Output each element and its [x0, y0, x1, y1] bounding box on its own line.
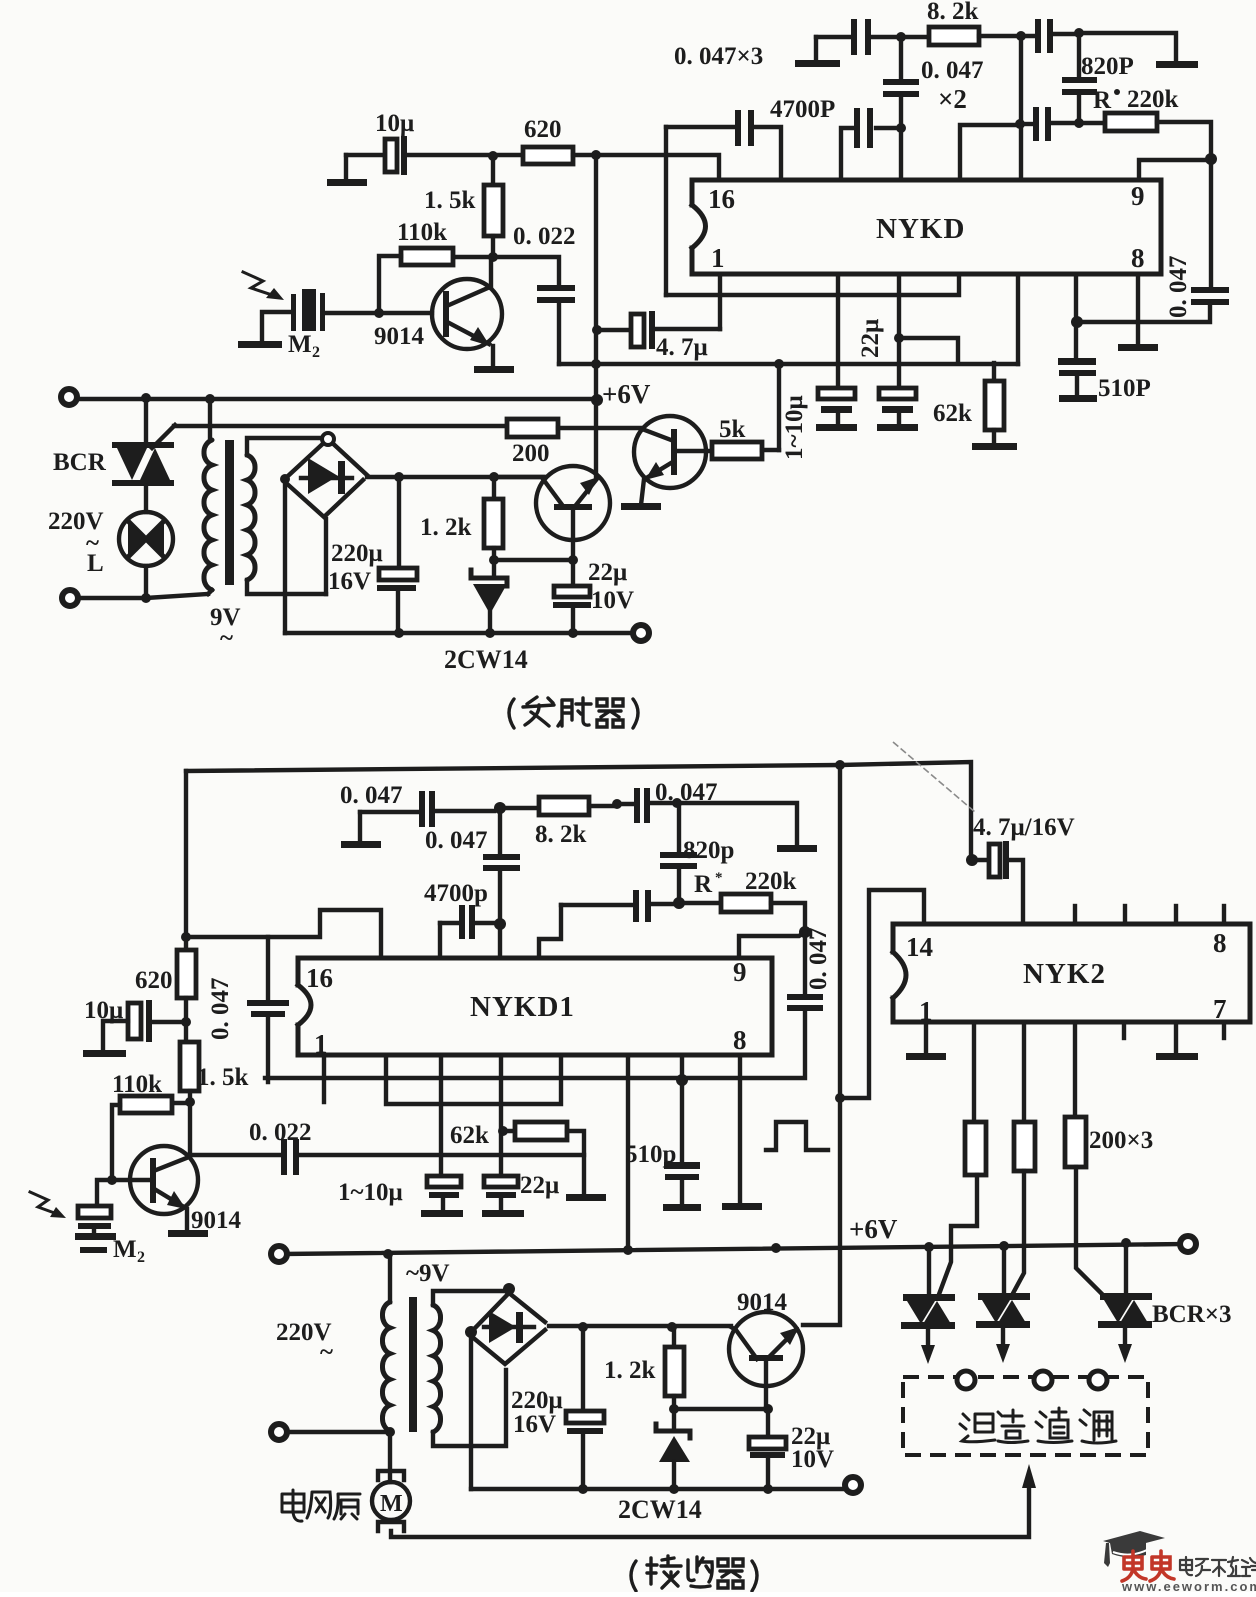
wire y125 with riser at 960 — [960, 125, 1018, 180]
label M2 — [288, 331, 320, 361]
svg-text:2CW14: 2CW14 — [444, 645, 528, 674]
svg-text:110k: 110k — [112, 1071, 162, 1098]
capacitor 1~10u (rx) — [421, 1176, 463, 1217]
zener 2CW14 — [471, 560, 507, 633]
svg-text:16V: 16V — [513, 1411, 556, 1438]
node — [488, 252, 498, 262]
label R* 220k — [1093, 86, 1179, 114]
terminal right — [1180, 1236, 1196, 1252]
svg-text:1~10μ: 1~10μ — [781, 395, 808, 460]
label fan chinese — [282, 1490, 360, 1521]
capacitor 220u/16V — [377, 477, 417, 633]
svg-text:10V: 10V — [591, 587, 634, 614]
label 0.047 x2 — [921, 57, 984, 114]
terminal rx2 — [271, 1424, 287, 1440]
IC U1 NYKD — [692, 180, 1161, 274]
svg-text:620: 620 — [524, 116, 562, 143]
wire pin to 1~10u — [836, 276, 840, 388]
svg-text:M: M — [380, 1491, 403, 1517]
node — [669, 1404, 679, 1414]
svg-text:220μ: 220μ — [331, 540, 383, 567]
node — [896, 32, 906, 42]
svg-text:1. 5k: 1. 5k — [424, 187, 476, 214]
label R* 220k — [694, 868, 797, 898]
label (receiver) chinese — [631, 1556, 757, 1591]
lamp L — [119, 512, 173, 566]
wire DC minus drop — [283, 482, 287, 633]
terminal TP2 — [62, 590, 78, 606]
wire collector column — [188, 1102, 192, 1155]
wire lamp to bottom — [144, 566, 148, 597]
pin stubs bottom — [1124, 1022, 1224, 1038]
capacitor 1~10u — [816, 388, 857, 431]
resistor 110k — [379, 248, 487, 313]
svg-text:4. 7μ/16V: 4. 7μ/16V — [973, 814, 1075, 841]
capacitor 0.022 (rx) — [190, 1139, 584, 1175]
node at 1020,124 — [1015, 119, 1025, 129]
vertical 1020 from node36 to IC — [1019, 41, 1023, 180]
node — [673, 897, 685, 909]
capacitor 0.022 — [493, 257, 575, 364]
resistor R* 220k — [1079, 113, 1211, 153]
triac BCR1 — [901, 1247, 955, 1364]
label 220V ~ — [276, 1319, 333, 1366]
wire — [346, 153, 383, 157]
terminal rx3 — [845, 1477, 861, 1493]
capacitor 22u (rx) — [482, 1176, 524, 1217]
wire motor bottom to box — [391, 1487, 1029, 1537]
svg-text:10μ: 10μ — [375, 110, 414, 137]
svg-text:220μ: 220μ — [511, 1387, 563, 1414]
node — [591, 150, 601, 160]
svg-text:16V: 16V — [328, 568, 371, 595]
capacitor 4700P — [666, 110, 781, 180]
wire to right ground — [1079, 33, 1176, 60]
transformer T1 secondary — [247, 438, 326, 594]
resistor 620 — [493, 147, 596, 164]
svg-text:0. 047: 0. 047 — [805, 928, 832, 991]
pin stubs top — [1075, 906, 1224, 924]
svg-text:820p: 820p — [683, 837, 734, 864]
svg-text:8: 8 — [733, 1025, 747, 1055]
svg-text:10μ: 10μ — [84, 997, 123, 1024]
svg-text:BCR×3: BCR×3 — [1152, 1301, 1232, 1328]
svg-text:510P: 510P — [1098, 375, 1151, 402]
wire pin to 1~10u — [439, 1057, 443, 1176]
node — [489, 472, 499, 482]
wire pin9 (rx) — [739, 932, 805, 958]
transistor Q5 9014 (rx) — [729, 1312, 803, 1409]
motor M — [372, 1432, 410, 1531]
IC U2 NYKD1 — [298, 958, 772, 1055]
watermark chongchong red chars — [1122, 1551, 1174, 1581]
capacitor 220u/16V (rx) — [566, 1327, 604, 1489]
svg-text:9014: 9014 — [374, 323, 425, 350]
wire DC minus (rx) — [469, 1336, 473, 1489]
label M2 — [113, 1236, 145, 1266]
node — [181, 1017, 191, 1027]
capacitor 0.047 (d) on y124 — [1020, 107, 1073, 141]
node — [205, 394, 215, 404]
gate wire 2 — [1011, 1171, 1024, 1297]
svg-text:1: 1 — [314, 1029, 328, 1059]
node — [488, 151, 498, 161]
node — [669, 1484, 679, 1494]
svg-text:M: M — [113, 1236, 137, 1263]
svg-text:9: 9 — [733, 957, 747, 987]
svg-text:*: * — [715, 870, 723, 886]
svg-text:L: L — [87, 550, 104, 577]
wire left column 666 — [664, 127, 668, 295]
transistor Q2 pass — [500, 404, 610, 556]
ground G4 rx top — [341, 812, 381, 848]
label 220u 16V — [511, 1387, 563, 1438]
capacitor 10u polarized — [385, 136, 489, 175]
wire — [287, 1430, 390, 1434]
label 22u 10V — [791, 1423, 834, 1473]
svg-text:10V: 10V — [791, 1446, 834, 1473]
gate wire 1 — [938, 1175, 977, 1297]
node — [485, 628, 495, 638]
node — [835, 760, 845, 770]
microphone M2 (rx) — [75, 1180, 116, 1253]
wire U loop — [386, 1057, 561, 1104]
node — [1121, 1238, 1131, 1248]
svg-text:62k: 62k — [450, 1122, 489, 1149]
pulse waveform symbol — [766, 1122, 828, 1150]
resistor 200 #1 — [965, 1022, 986, 1175]
svg-text:NYKD1: NYKD1 — [470, 991, 575, 1023]
wire +6V rail — [79, 397, 597, 401]
node — [141, 393, 151, 403]
resistor 200 #2 — [1014, 1022, 1035, 1171]
IC U3 NYK2 — [893, 924, 1250, 1022]
terminal ring 3 on box — [1089, 1371, 1107, 1389]
svg-text:0. 047×3: 0. 047×3 — [674, 43, 763, 70]
node 510p — [676, 1074, 688, 1086]
node — [394, 472, 404, 482]
svg-text:22μ: 22μ — [520, 1172, 559, 1199]
svg-text:8. 2k: 8. 2k — [927, 0, 979, 25]
node 22u jog — [894, 333, 904, 343]
capacitor 0.047 left of IC — [247, 937, 289, 1082]
node — [896, 123, 906, 133]
wire — [494, 558, 573, 562]
wire gate line — [174, 424, 507, 428]
svg-text:9: 9 — [1131, 181, 1145, 211]
capacitor 22u/10V (rx) — [749, 1409, 786, 1489]
capacitor 0.047 (c) left of node128 — [841, 108, 896, 180]
node — [494, 918, 506, 930]
capacitor 0.047 (right column) — [1083, 159, 1229, 322]
capacitor 10u (rx) — [83, 1000, 182, 1057]
wire to right ground — [677, 803, 817, 852]
node 4.7u tap — [592, 325, 602, 335]
terminal TP3 — [633, 625, 649, 641]
svg-text:820P: 820P — [1081, 53, 1134, 80]
capacitor (b) after 8.2k — [1021, 19, 1075, 53]
node — [107, 1175, 117, 1185]
svg-text:0. 047: 0. 047 — [921, 57, 984, 84]
svg-text:www.eeworm.com: www.eeworm.com — [1121, 1579, 1256, 1592]
node — [383, 1249, 393, 1259]
wire collector link — [674, 1407, 768, 1411]
transformer T1 core — [225, 440, 234, 585]
svg-text:0. 022: 0. 022 — [513, 223, 576, 250]
rf bolt (rx) — [30, 1192, 66, 1218]
svg-text:4700P: 4700P — [770, 96, 835, 123]
node — [591, 359, 601, 369]
resistor 200 #3 — [1065, 1022, 1086, 1167]
node — [141, 593, 151, 603]
wire DC plus (rx) — [549, 1324, 731, 1328]
svg-text:8: 8 — [1131, 243, 1145, 273]
svg-text:2CW14: 2CW14 — [618, 1495, 702, 1524]
svg-text:1. 5k: 1. 5k — [197, 1064, 249, 1091]
node — [1074, 118, 1084, 128]
svg-text:110k: 110k — [397, 219, 447, 246]
capacitor 4.7u/16V — [972, 841, 1023, 924]
node — [672, 798, 682, 808]
ground G3 under 10u — [327, 155, 367, 186]
capacitor 0.047 right column (rx) — [265, 932, 823, 1078]
resistor 620 (rx) — [177, 950, 196, 1022]
wire y364 long — [559, 362, 1018, 366]
resistor 62k vertical — [972, 363, 1017, 450]
wire pin9 link — [1139, 160, 1211, 180]
node — [924, 1242, 934, 1252]
svg-text:×2: ×2 — [938, 84, 967, 114]
node — [1205, 153, 1217, 165]
node — [385, 1427, 395, 1437]
capacitor 0.047 #2 — [617, 788, 671, 823]
transformer T2 core — [409, 1297, 417, 1432]
node — [489, 555, 499, 565]
node — [185, 1097, 195, 1107]
svg-text:22μ: 22μ — [588, 559, 627, 586]
node — [578, 1484, 588, 1494]
svg-text:2: 2 — [312, 344, 320, 361]
capacitor 0.047 (mid) vertical — [883, 42, 919, 124]
gate wire 3 — [1076, 1167, 1104, 1296]
svg-text:0. 022: 0. 022 — [249, 1119, 312, 1146]
svg-text:BCR: BCR — [53, 449, 107, 476]
wire bus y295 — [666, 276, 959, 295]
svg-text:620: 620 — [135, 967, 173, 994]
bridge rectifier D1 — [285, 433, 367, 517]
svg-text:62k: 62k — [933, 400, 972, 427]
svg-text:220k: 220k — [1127, 86, 1179, 113]
svg-text:1: 1 — [711, 243, 725, 273]
node +6V — [591, 394, 603, 406]
wire 620node to pin16 — [596, 155, 719, 180]
resistor 8.2k (rx) — [500, 797, 617, 815]
watermark site chinese black — [1180, 1557, 1256, 1576]
node — [578, 1322, 588, 1332]
svg-text:0. 047: 0. 047 — [340, 782, 403, 809]
label 9V ~ — [210, 604, 241, 652]
svg-text:4. 7μ: 4. 7μ — [656, 334, 708, 361]
wire bottom left — [78, 594, 208, 598]
label 220u 16V — [328, 540, 383, 595]
resistor 1.5k vertical — [484, 160, 503, 257]
terminal ring 2 on box — [1034, 1371, 1052, 1389]
scan artifact diagonal — [893, 742, 975, 812]
triac BCR3 — [1098, 1243, 1152, 1363]
wire pin 1076 to 510P — [1074, 276, 1078, 358]
svg-text:22μ: 22μ — [857, 319, 884, 358]
node — [374, 308, 384, 318]
svg-text:9014: 9014 — [737, 1289, 788, 1316]
wire top rail — [186, 762, 971, 857]
zener 2CW14 (rx) — [656, 1409, 690, 1489]
svg-text:1. 2k: 1. 2k — [420, 514, 472, 541]
svg-text:+6V: +6V — [849, 1214, 898, 1244]
node — [835, 1093, 845, 1103]
resistor 62k (rx) — [503, 1122, 606, 1201]
capacitor 0.047 (a) — [851, 19, 897, 55]
wire stub pin — [322, 1057, 326, 1102]
capacitor 510p (rx) — [663, 1057, 701, 1211]
wire pin to rail — [626, 1057, 630, 1249]
wire base — [325, 311, 432, 315]
label (transmitter) chinese — [509, 697, 638, 728]
svg-text:510p: 510p — [625, 1141, 676, 1168]
svg-text:9014: 9014 — [191, 1207, 242, 1234]
svg-text:200×3: 200×3 — [1089, 1127, 1153, 1154]
svg-text:~: ~ — [320, 1339, 333, 1366]
wire BCR drop — [144, 398, 148, 445]
triac BCR — [112, 425, 175, 486]
resistor 1.5k (rx) — [180, 1022, 199, 1102]
ground G2 top-right — [1156, 61, 1198, 68]
node — [612, 799, 622, 809]
wire jog to 62k line — [899, 338, 958, 363]
transistor Q4 9014 (rx) — [112, 1146, 208, 1237]
pin ground right — [1156, 1022, 1198, 1060]
wire +6V rail — [283, 1244, 1188, 1254]
svg-text:16: 16 — [306, 963, 333, 993]
node — [774, 359, 784, 369]
resistor 8.2k — [929, 27, 1017, 45]
node — [667, 1322, 677, 1332]
capacitor 4700p (rx) — [440, 905, 495, 958]
wire — [816, 35, 849, 39]
node — [999, 1241, 1009, 1251]
svg-text:+6V: +6V — [602, 379, 651, 409]
transistor Q1 9014 — [432, 259, 514, 373]
node — [465, 1326, 477, 1338]
node — [280, 474, 290, 484]
node — [503, 1283, 515, 1295]
node — [763, 1484, 773, 1494]
svg-text:220k: 220k — [745, 868, 797, 895]
svg-text:M: M — [288, 331, 312, 358]
bridge rectifier D2 — [471, 1293, 545, 1364]
node rail top — [966, 854, 978, 866]
transformer T1 primary — [204, 399, 212, 594]
svg-text:200: 200 — [512, 440, 550, 467]
wire bottom rail — [285, 631, 633, 635]
microphone M2 — [238, 289, 325, 348]
wire DC plus — [367, 475, 545, 479]
wire pin to ground — [722, 1057, 762, 1210]
svg-text:R: R — [694, 871, 713, 898]
capacitor 4.7u — [597, 276, 720, 349]
node — [568, 555, 578, 565]
capacitor 510P — [1058, 358, 1097, 402]
ground G1 top-left of 0.047x3 — [795, 37, 840, 67]
node — [494, 802, 506, 814]
capacitor 820p (rx) — [660, 803, 697, 903]
node 62k tap — [498, 1126, 508, 1136]
capacitor 22u/10V — [553, 560, 591, 633]
resistor 5k — [712, 364, 779, 459]
resistor R* 220k (rx) — [685, 894, 805, 926]
svg-text:4700p: 4700p — [424, 880, 488, 907]
resistor 110k (rx) — [112, 1096, 190, 1180]
transformer T2 primary — [382, 1254, 390, 1432]
svg-text:NYK2: NYK2 — [1023, 958, 1106, 990]
node — [623, 1245, 633, 1255]
svg-text:5k: 5k — [719, 416, 746, 443]
node — [181, 932, 191, 942]
svg-text:R: R — [1093, 87, 1112, 114]
label 22u 10V — [588, 559, 634, 614]
wire bottom dc rail (rx) — [471, 1487, 845, 1491]
node — [1071, 316, 1083, 328]
svg-text:16: 16 — [708, 184, 735, 214]
node — [568, 628, 578, 638]
label speed-channel chinese — [960, 1408, 1116, 1443]
terminal TP1 — [61, 389, 77, 405]
node — [1074, 28, 1084, 38]
wire pin to 22u — [499, 1057, 503, 1176]
capacitor 0.047 #4 — [539, 890, 673, 958]
rf bolt arrow — [243, 272, 284, 300]
label 220V ~ — [48, 508, 104, 557]
terminal rx1 — [271, 1246, 287, 1262]
arrow into box — [1022, 1464, 1036, 1488]
wire long base line — [803, 765, 840, 1325]
svg-text:8: 8 — [1213, 928, 1227, 958]
svg-text:7: 7 — [1213, 994, 1227, 1024]
svg-text:NYKD: NYKD — [876, 213, 965, 245]
resistor 1.2k (rx) — [665, 1327, 684, 1409]
capacitor 820P — [1062, 38, 1097, 118]
svg-text:2: 2 — [137, 1249, 145, 1266]
capacitor 0.047 #1 — [360, 791, 494, 827]
triac BCR2 — [976, 1246, 1030, 1363]
node — [763, 1404, 773, 1414]
node — [1016, 31, 1026, 41]
wire — [901, 35, 929, 39]
resistor 200 — [507, 419, 641, 437]
svg-text:0. 047: 0. 047 — [1165, 256, 1192, 319]
svg-text:0. 047: 0. 047 — [207, 978, 234, 1041]
capacitor 0.047 #3 mid column — [483, 808, 520, 958]
node — [799, 926, 811, 938]
svg-text:0. 047: 0. 047 — [425, 827, 488, 854]
svg-text:1. 2k: 1. 2k — [604, 1357, 656, 1384]
wire pin 1018 — [1016, 276, 1020, 364]
node — [771, 1243, 781, 1253]
wire pin14 hook — [845, 890, 924, 1098]
pin1 ground — [906, 1022, 946, 1060]
transistor Q3 — [621, 416, 712, 510]
dashed box speed channels — [903, 1377, 1148, 1455]
wire left column — [184, 771, 188, 950]
